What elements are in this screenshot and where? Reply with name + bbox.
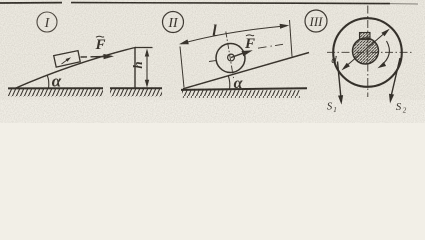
paper background	[0, 0, 425, 123]
pulley vertical centerline	[367, 6, 369, 98]
h dimension I	[145, 49, 149, 88]
wheel vertical centerline	[226, 32, 234, 79]
S1 force arrow	[338, 62, 341, 97]
incline line II	[183, 53, 309, 89]
angle arc I	[47, 76, 49, 89]
big pulley circle	[333, 18, 402, 87]
ground II	[181, 88, 307, 98]
top rule line	[0, 3, 418, 4]
hub circle hatched	[353, 38, 379, 64]
angle arc II	[228, 76, 230, 90]
apex extension line	[135, 47, 153, 49]
block on incline	[54, 51, 80, 68]
d dimension line	[344, 31, 387, 68]
dimension l line II	[181, 26, 287, 44]
marker I circle	[37, 12, 57, 32]
ground I	[8, 88, 162, 96]
keyway on hub	[360, 33, 371, 40]
axis dash-dot left of wheel	[209, 60, 217, 61]
rotation arrow arc	[381, 41, 390, 66]
extension lines II	[180, 47, 184, 88]
pulley horizontal centerline	[327, 51, 412, 53]
force F arrow I	[81, 56, 107, 59]
wheel II	[216, 44, 245, 73]
marker III circle	[305, 10, 327, 32]
triangle incline I	[15, 48, 135, 89]
wheel hub	[228, 54, 235, 61]
force F arrow II	[231, 53, 244, 58]
axis dash-dot right of arrow	[258, 44, 283, 48]
paper grain overlay	[0, 0, 425, 123]
marker II circle	[163, 12, 184, 33]
S2 force arrow	[392, 58, 401, 95]
